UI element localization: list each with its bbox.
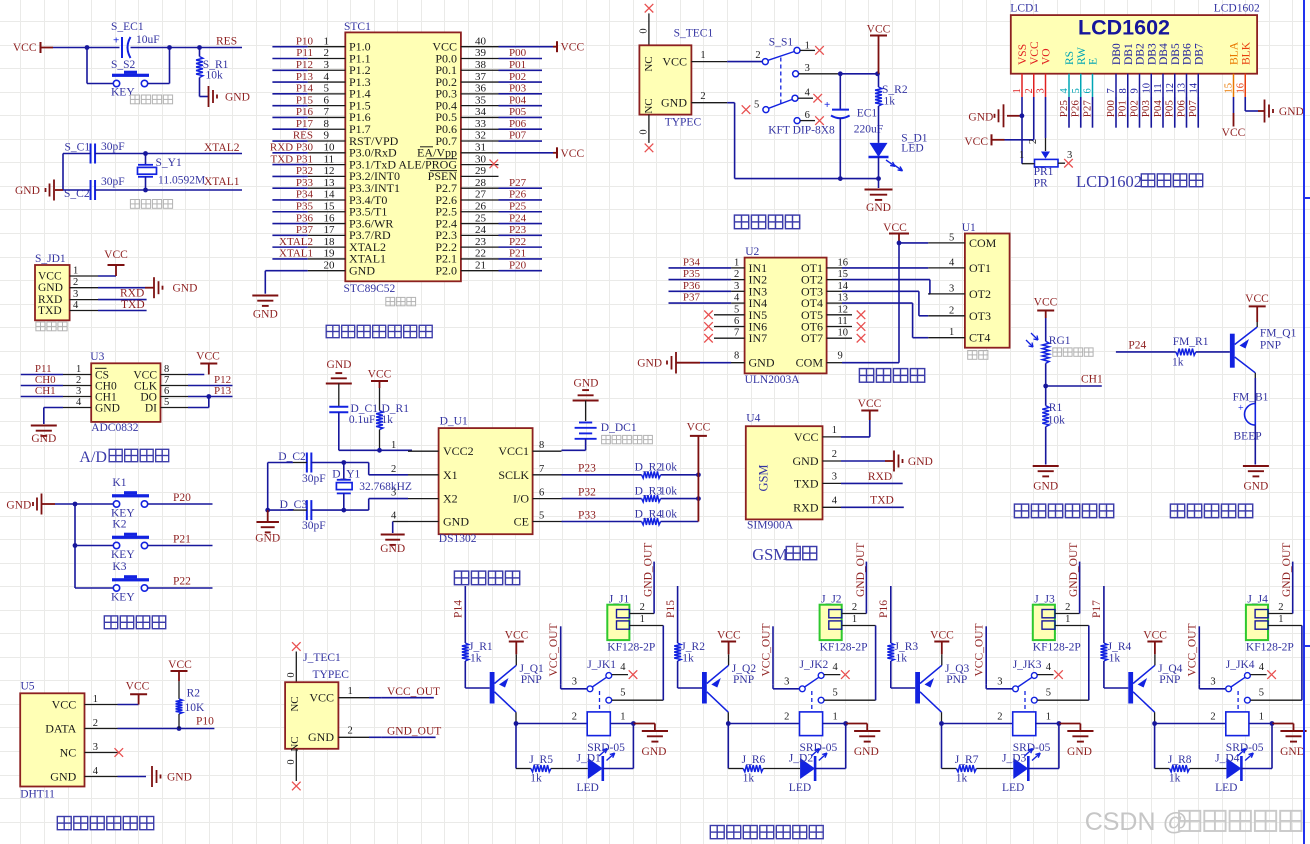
svg-text:CE: CE: [514, 515, 529, 529]
capacitor S_EC1 10uF: [121, 37, 123, 58]
svg-text:S_JD1: S_JD1: [35, 253, 66, 265]
node pwr-A: [838, 71, 843, 76]
no-connect X pin30: [490, 160, 499, 169]
wire VO to potentiometer: [1045, 97, 1047, 138]
wire/net P25: [499, 211, 543, 213]
title bu-jin-dian-ji: [859, 369, 873, 383]
svg-text:P23: P23: [509, 224, 527, 236]
svg-text:4: 4: [1046, 662, 1052, 673]
buzzer FM_B1 BEEP: [1254, 378, 1256, 404]
svg-text:4: 4: [620, 662, 626, 673]
wire J_TEC1 bottom: [295, 749, 297, 781]
ground (relay 2): [846, 723, 868, 725]
svg-text:J_R7: J_R7: [955, 754, 979, 766]
svg-text:VCC: VCC: [794, 430, 819, 444]
relay switch terminal 4 + X (relay 4): [1250, 674, 1266, 676]
pin 1 VCC_OUT (J_TEC1): [338, 697, 369, 699]
svg-text:P36: P36: [683, 280, 701, 292]
wire/net P33: [272, 187, 307, 189]
svg-text:1k: 1k: [682, 653, 694, 665]
pin 15 P3.5/T1: [308, 211, 346, 213]
svg-text:VCC: VCC: [561, 42, 585, 54]
svg-text:D_R2: D_R2: [635, 462, 663, 474]
svg-text:24: 24: [475, 224, 487, 236]
svg-text:OT2: OT2: [969, 287, 991, 301]
svg-text:1: 1: [348, 686, 353, 697]
collector wire (relay 4): [1133, 692, 1155, 712]
pin 13 P3.3/INT1: [308, 187, 346, 189]
wire/net TXD (S_JD1): [98, 310, 147, 312]
relay switch terminal 5 (relay 1): [606, 697, 612, 703]
svg-text:P03: P03: [1140, 100, 1152, 118]
pin 3 P1.2: [308, 69, 346, 71]
svg-text:7: 7: [539, 464, 544, 475]
svg-text:STC1: STC1: [344, 21, 371, 33]
svg-text:15: 15: [1224, 83, 1235, 94]
svg-text:34: 34: [475, 106, 487, 118]
wire K2 branch: [75, 545, 113, 547]
svg-text:3: 3: [324, 59, 330, 71]
svg-text:CH1: CH1: [1081, 374, 1103, 386]
power port VCC (relay 3): [934, 641, 949, 643]
no-connect X (U2 pin 6): [704, 322, 713, 331]
svg-text:7: 7: [1106, 88, 1117, 93]
wire/net P01: [499, 69, 543, 71]
svg-text:A/D: A/D: [79, 449, 107, 466]
svg-text:30pF: 30pF: [101, 176, 125, 188]
wire/net P34: [669, 267, 732, 269]
svg-text:GND: GND: [749, 356, 775, 370]
svg-text:14: 14: [838, 281, 849, 292]
capacitor S_C1 30pF: [90, 144, 92, 164]
svg-text:P12: P12: [296, 59, 313, 71]
svg-text:5: 5: [1046, 688, 1051, 699]
svg-text:E: E: [1088, 58, 1100, 65]
wire/net P05 (LCD pin 12): [1174, 97, 1176, 128]
svg-text:VCC: VCC: [662, 55, 687, 69]
svg-text:J_R8: J_R8: [1168, 754, 1192, 766]
ground (LCD VSS): [1007, 115, 1022, 117]
pin 35 P0.4: [461, 105, 499, 107]
svg-text:5: 5: [754, 100, 759, 111]
svg-text:GND: GND: [1279, 106, 1304, 118]
relay switch terminal 4 + X (relay 2): [824, 674, 840, 676]
no-connect X (U2 pin 11): [857, 322, 866, 331]
dashed actuator link (relay 3): [1024, 691, 1026, 712]
svg-text:1: 1: [832, 425, 837, 436]
annotation xia-zai-kou (gray): [36, 322, 45, 331]
wire XTAL2: [95, 153, 242, 155]
resistor J_R7 1k: [956, 765, 976, 772]
svg-text:P27: P27: [1082, 100, 1094, 118]
wire/net P06 (LCD pin 13): [1186, 97, 1188, 128]
svg-text:LED: LED: [1215, 782, 1237, 794]
relay switch terminal 5 (relay 4): [1245, 697, 1251, 703]
wire/net P34: [272, 199, 307, 201]
power port VCC (light): [1037, 310, 1054, 312]
power port VCC (U3 pin8): [188, 374, 204, 376]
svg-text:LCD1602: LCD1602: [1076, 172, 1142, 191]
pin 2 J_J4 to GND_OUT: [1268, 613, 1293, 615]
node CH1: [1043, 384, 1048, 389]
svg-text:J_R3: J_R3: [895, 641, 919, 653]
svg-text:K1: K1: [112, 477, 126, 489]
svg-text:0: 0: [639, 28, 650, 33]
resistor S_R2 1k: [878, 74, 880, 87]
relay switch terminal 5 (relay 3): [1031, 697, 1037, 703]
svg-text:5: 5: [539, 511, 544, 522]
svg-text:VCC: VCC: [858, 398, 882, 410]
svg-text:FM_R1: FM_R1: [1173, 336, 1209, 348]
svg-text:6: 6: [805, 110, 810, 121]
svg-text:30pF: 30pF: [101, 141, 125, 153]
power port VCC (relay 4): [1147, 641, 1162, 643]
svg-text:J_JK1: J_JK1: [587, 659, 616, 671]
svg-text:GND: GND: [1033, 481, 1058, 493]
svg-text:3: 3: [734, 281, 739, 292]
wire/net RXD P30: [272, 152, 307, 154]
svg-text:FM_Q1: FM_Q1: [1260, 328, 1297, 340]
svg-text:4: 4: [76, 397, 82, 408]
wire/net P11: [272, 57, 307, 59]
svg-text:CT4: CT4: [969, 331, 990, 345]
svg-text:GND: GND: [793, 454, 819, 468]
pin 1 J_J1 wire: [629, 625, 663, 627]
node xtal1: [143, 188, 148, 193]
svg-text:U5: U5: [21, 681, 35, 693]
svg-text:P00: P00: [1105, 100, 1117, 118]
svg-text:5: 5: [164, 397, 169, 408]
pot pin3 + no-connect X: [1058, 162, 1065, 164]
dashed actuator link (relay 4): [1237, 691, 1239, 712]
svg-text:P34: P34: [296, 189, 314, 201]
svg-text:32.768kHZ: 32.768kHZ: [359, 481, 412, 493]
svg-text:DB6: DB6: [1182, 43, 1194, 65]
pin 1 J_J4 wire: [1268, 625, 1302, 627]
svg-text:+: +: [113, 35, 119, 47]
pin 9 RST/VPD: [308, 140, 346, 142]
svg-text:GSM: GSM: [757, 464, 771, 491]
svg-text:P02: P02: [1129, 100, 1141, 117]
svg-text:25: 25: [475, 212, 487, 224]
resistor D_R1 1k: [379, 388, 381, 411]
svg-text:4: 4: [734, 293, 740, 304]
svg-text:DS1302: DS1302: [439, 533, 477, 545]
wire to relay coil (relay 2): [728, 723, 799, 725]
svg-text:15: 15: [324, 200, 336, 212]
relay switch blade (relay 1): [592, 677, 606, 687]
power port VCC (LCD BLA): [1233, 97, 1235, 113]
svg-text:PR: PR: [1034, 178, 1048, 190]
node relay3-coil-left: [939, 721, 944, 726]
svg-text:3: 3: [949, 283, 954, 294]
svg-text:DATA: DATA: [45, 721, 76, 735]
svg-text:15: 15: [838, 269, 849, 280]
wire/net P03: [499, 93, 543, 95]
LED branch wire (relay 3): [941, 724, 943, 769]
svg-text:6: 6: [324, 94, 330, 106]
svg-text:KF128-2P: KF128-2P: [820, 642, 868, 654]
wire X1: [311, 462, 368, 464]
relay coil SRD-05 (relay 1): [587, 712, 610, 736]
svg-text:RXD: RXD: [793, 500, 819, 514]
svg-text:RS: RS: [1064, 51, 1076, 65]
wire/net P10: [272, 46, 307, 48]
pin 1 J_J2 wire: [842, 625, 876, 627]
svg-text:D_U1: D_U1: [440, 416, 468, 428]
pin 18 XTAL2: [308, 246, 346, 248]
svg-text:22: 22: [475, 248, 486, 260]
svg-text:14: 14: [1188, 82, 1199, 93]
svg-text:P10: P10: [196, 716, 214, 728]
svg-text:J_J1: J_J1: [609, 594, 630, 606]
node relay2-coil-right: [843, 721, 848, 726]
relay switch J_JK3 common: [985, 685, 987, 689]
svg-text:P07: P07: [1187, 100, 1199, 118]
svg-text:P10: P10: [296, 35, 314, 47]
svg-text:PNP: PNP: [946, 674, 967, 686]
pin 19 XTAL1: [308, 258, 346, 260]
svg-text:P16: P16: [878, 600, 890, 618]
transistor J_Q2 PNP: [702, 672, 707, 704]
svg-text:P04: P04: [1152, 100, 1164, 118]
svg-text:TXD: TXD: [794, 476, 819, 490]
svg-text:P01: P01: [509, 59, 526, 71]
node relay2-coil-left: [726, 721, 731, 726]
svg-text:PNP: PNP: [521, 674, 542, 686]
svg-text:P21: P21: [173, 534, 191, 546]
svg-text:PNP: PNP: [1260, 340, 1281, 352]
svg-text:5: 5: [949, 232, 954, 243]
diode S_D1 LED: [870, 143, 888, 157]
svg-text:P25: P25: [1058, 100, 1070, 118]
capacitor D_C1 0.1uF: [329, 406, 348, 408]
svg-text:10k: 10k: [660, 509, 678, 521]
svg-text:2: 2: [73, 277, 78, 288]
svg-text:TYPEC: TYPEC: [665, 117, 702, 129]
pin 12 P3.2/INT0: [308, 175, 346, 177]
capacitor D_C2 30pF: [306, 453, 308, 473]
svg-text:D_R4: D_R4: [635, 509, 663, 521]
svg-text:GND_OUT: GND_OUT: [1068, 543, 1080, 597]
wire/net P16: [272, 116, 307, 118]
svg-text:ULN2003A: ULN2003A: [745, 374, 801, 386]
svg-text:11: 11: [324, 153, 335, 165]
svg-text:GND: GND: [637, 358, 662, 370]
svg-text:OT1: OT1: [969, 261, 991, 275]
svg-text:26: 26: [475, 200, 487, 212]
svg-text:RXD: RXD: [120, 288, 144, 300]
pin 1 (S_TEC1) wire to switch: [691, 61, 727, 63]
svg-text:J_R2: J_R2: [681, 641, 705, 653]
svg-text:KF128-2P: KF128-2P: [607, 642, 655, 654]
svg-text:2: 2: [640, 602, 645, 613]
LED return wire (relay 3): [1028, 768, 1059, 770]
svg-text:K3: K3: [112, 561, 126, 573]
no-connect X (J_TEC1 top): [292, 642, 301, 651]
svg-text:GND: GND: [908, 456, 933, 468]
svg-text:4: 4: [1059, 88, 1070, 94]
pin 32 P0.7: [461, 140, 499, 142]
svg-text:COM: COM: [796, 356, 824, 370]
pin 2 J_J3 to GND_OUT: [1055, 613, 1080, 615]
svg-text:1k: 1k: [470, 653, 482, 665]
wire/net P02: [499, 81, 543, 83]
annotation cha-zuo (gray): [968, 351, 977, 360]
node reset-B: [167, 45, 172, 50]
svg-text:GND: GND: [308, 730, 334, 744]
svg-text:RG1: RG1: [1049, 335, 1071, 347]
wire DI to P13: [188, 407, 209, 409]
svg-text:J_R5: J_R5: [529, 754, 553, 766]
svg-text:GND: GND: [661, 96, 687, 110]
node r2vcc: [696, 472, 701, 477]
switch S_S1 terminal 6: [794, 118, 800, 124]
svg-text:P36: P36: [296, 212, 314, 224]
svg-text:GND_OUT: GND_OUT: [1281, 543, 1293, 597]
svg-text:VCC: VCC: [104, 249, 128, 261]
svg-text:P26: P26: [1070, 100, 1082, 118]
svg-text:P15: P15: [296, 94, 314, 106]
svg-text:P17: P17: [296, 118, 314, 130]
power port VCC (power circuit): [870, 35, 887, 37]
wire RES node to resistor: [199, 48, 201, 57]
svg-text:I/O: I/O: [513, 492, 529, 506]
wire crystal caps left: [63, 153, 91, 155]
switch K2 KEY: [113, 542, 119, 548]
svg-text:VCC_OUT: VCC_OUT: [1187, 623, 1199, 676]
svg-text:OT3: OT3: [969, 309, 991, 323]
svg-text:J_R1: J_R1: [469, 641, 493, 653]
svg-text:VCC_OUT: VCC_OUT: [760, 623, 772, 676]
title ji-dian-qi-kong-zhi-dian-lu: [710, 826, 724, 839]
wire S_EC1 to RES: [131, 47, 243, 49]
svg-text:GND: GND: [173, 283, 198, 295]
switch S_S1 terminal 3: [793, 71, 799, 77]
svg-text:VCC_OUT: VCC_OUT: [548, 623, 560, 676]
wire/net P20: [499, 270, 543, 272]
dashed actuator link (relay 1): [599, 691, 601, 712]
svg-text:3: 3: [832, 471, 837, 482]
svg-text:RXD P30: RXD P30: [270, 142, 314, 154]
svg-text:1: 1: [1046, 712, 1051, 723]
wire/net P00: [499, 57, 543, 59]
ground (S_JD1 pin2): [98, 287, 145, 289]
pin 10 P3.0/RxD: [308, 152, 346, 154]
wire/net P04 (LCD pin 11): [1162, 97, 1164, 128]
wire coil to gnd (relay 2): [823, 723, 846, 725]
svg-text:1: 1: [76, 364, 81, 375]
annotation guang-min-dian-zu (gray): [1053, 348, 1062, 356]
node relay3-coil-right: [1057, 721, 1062, 726]
no-connect X (J_TEC1 bottom): [292, 782, 301, 791]
resistor J_R5 1k: [531, 765, 551, 772]
ground (relay 1): [633, 723, 655, 725]
svg-text:5: 5: [324, 83, 330, 95]
svg-text:4: 4: [73, 300, 79, 311]
node r3vcc: [696, 496, 701, 501]
svg-text:21: 21: [475, 259, 486, 271]
svg-text:XTAL1: XTAL1: [204, 176, 240, 188]
svg-text:37: 37: [475, 71, 487, 83]
svg-text:10k: 10k: [206, 70, 224, 82]
resistor FM_R1 1k: [1176, 349, 1196, 356]
svg-text:KEY: KEY: [111, 592, 135, 604]
pin 2 J_J2 to GND_OUT: [842, 613, 867, 615]
transistor J_Q4 PNP: [1128, 672, 1133, 704]
svg-text:1: 1: [852, 614, 857, 625]
pin 14 P3.4/T0: [308, 199, 346, 201]
svg-text:P13: P13: [296, 71, 314, 83]
svg-text:4: 4: [949, 257, 955, 268]
svg-text:23: 23: [475, 236, 487, 248]
svg-text:17: 17: [324, 224, 336, 236]
svg-text:P2.0: P2.0: [435, 264, 457, 278]
svg-text:R1: R1: [1049, 402, 1063, 414]
title wen-shi-du-chuan-gan-qi: [57, 817, 71, 830]
pin 26 P2.5: [461, 211, 499, 213]
svg-text:1: 1: [1259, 712, 1264, 723]
svg-text:30: 30: [475, 153, 487, 165]
LED branch wire (relay 1): [515, 724, 517, 769]
power port VCC (R2): [171, 670, 188, 672]
relay switch blade (relay 2): [805, 677, 819, 687]
svg-text:2: 2: [997, 712, 1002, 723]
ground (U3): [31, 425, 57, 427]
svg-text:8: 8: [324, 118, 330, 130]
svg-text:COM: COM: [969, 236, 997, 250]
svg-text:BEEP: BEEP: [1234, 431, 1262, 443]
wire/net P23: [499, 234, 543, 236]
annotation an-jian-fu-wei (gray): [130, 95, 139, 104]
relay coil SRD-05 (relay 2): [800, 712, 823, 736]
svg-text:4: 4: [833, 662, 839, 673]
svg-text:U4: U4: [746, 413, 760, 425]
svg-text:2: 2: [93, 718, 98, 729]
wire OT4 jog: [842, 302, 913, 304]
svg-text:P16: P16: [296, 106, 314, 118]
svg-text:2: 2: [1278, 602, 1283, 613]
wire/net TXD (U4): [841, 506, 904, 508]
svg-text:10: 10: [838, 328, 849, 339]
wire/net P00 (LCD pin 7): [1115, 97, 1117, 128]
wire GND pin20: [265, 270, 307, 272]
svg-text:P33: P33: [578, 510, 596, 522]
wire S_TEC1 top: [648, 13, 650, 45]
svg-text:S_C1: S_C1: [65, 142, 91, 154]
svg-text:2: 2: [700, 91, 705, 102]
pin 29 PSEN: [461, 175, 499, 177]
resistor J_R2 1k: [674, 643, 681, 661]
svg-text:GND: GND: [95, 402, 120, 414]
wire/net P12: [188, 385, 233, 387]
pin 16 P3.6/WR: [308, 223, 346, 225]
svg-text:VCC: VCC: [38, 271, 62, 283]
svg-text:S_S1: S_S1: [769, 37, 794, 49]
svg-text:16: 16: [838, 257, 849, 268]
svg-text:3: 3: [805, 63, 810, 74]
svg-text:D_C3: D_C3: [280, 499, 308, 511]
svg-text:31: 31: [475, 142, 486, 154]
wire to relay coil (relay 3): [942, 723, 1013, 725]
diode J_D2 LED: [800, 758, 815, 779]
photoresistor RG1: [1045, 318, 1047, 341]
node keys-2: [73, 543, 78, 548]
svg-text:9: 9: [324, 130, 330, 142]
svg-text:XTAL2: XTAL2: [204, 142, 240, 154]
svg-text:P33: P33: [296, 177, 314, 189]
wire/net XTAL1: [272, 258, 307, 260]
